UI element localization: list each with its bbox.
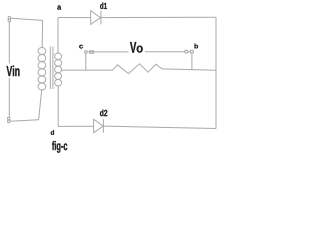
source terminal bottom circle 2 xyxy=(8,120,11,123)
label a xyxy=(57,5,61,9)
wire top rail left of D1 xyxy=(58,17,91,19)
diode D2 triangle xyxy=(94,119,104,133)
label c xyxy=(79,45,83,49)
wire resistor to right rail xyxy=(162,69,216,70)
transformer T1 secondary winding xyxy=(55,53,62,86)
wire bottom rail right of D2 xyxy=(103,126,216,128)
label b xyxy=(195,44,199,49)
wire top-left horizontal xyxy=(11,18,43,20)
wire primary top drop xyxy=(41,20,43,47)
diode D1 cathode bar xyxy=(100,11,102,25)
wire center tap to resistor xyxy=(61,69,113,71)
diode D1 triangle xyxy=(91,11,101,25)
node b junction box xyxy=(190,50,193,53)
transformer T1 primary winding xyxy=(38,47,46,90)
label o xyxy=(137,46,143,53)
wire right rail xyxy=(215,17,217,128)
wire bottom-left horizontal xyxy=(10,120,38,122)
resistor R zigzag xyxy=(113,64,163,74)
wire Vo line left segment xyxy=(87,51,128,53)
diode D2 cathode bar xyxy=(102,119,104,133)
label Vin xyxy=(7,66,20,77)
wire Vo line right segment xyxy=(145,51,185,53)
label V xyxy=(130,42,136,53)
wire bottom rail left of D2 xyxy=(58,125,93,127)
wire b circle to box xyxy=(188,51,191,53)
source terminal bottom circle 1 xyxy=(8,117,11,120)
transformer T1 core xyxy=(50,47,53,90)
wire primary bottom drop xyxy=(39,90,42,120)
wire Vin vertical upper xyxy=(8,22,10,64)
wire secondary bottom (node d drop) xyxy=(57,86,59,126)
wire node b stub xyxy=(191,53,193,70)
source terminal top circle 1 xyxy=(8,17,11,20)
label d xyxy=(51,130,54,135)
label d1 xyxy=(100,3,107,10)
label d2 xyxy=(100,110,107,117)
node c terminal circle xyxy=(85,51,88,54)
label fig-c xyxy=(52,141,67,153)
wire node c stub xyxy=(85,53,87,70)
source terminal top circle 2 xyxy=(8,19,11,22)
wire secondary top (node a drop) xyxy=(57,18,59,54)
wire Vin vertical lower xyxy=(8,78,10,117)
node b terminal circle xyxy=(185,50,188,53)
wire top rail right of D1 xyxy=(101,16,216,18)
node c junction box xyxy=(90,51,94,54)
